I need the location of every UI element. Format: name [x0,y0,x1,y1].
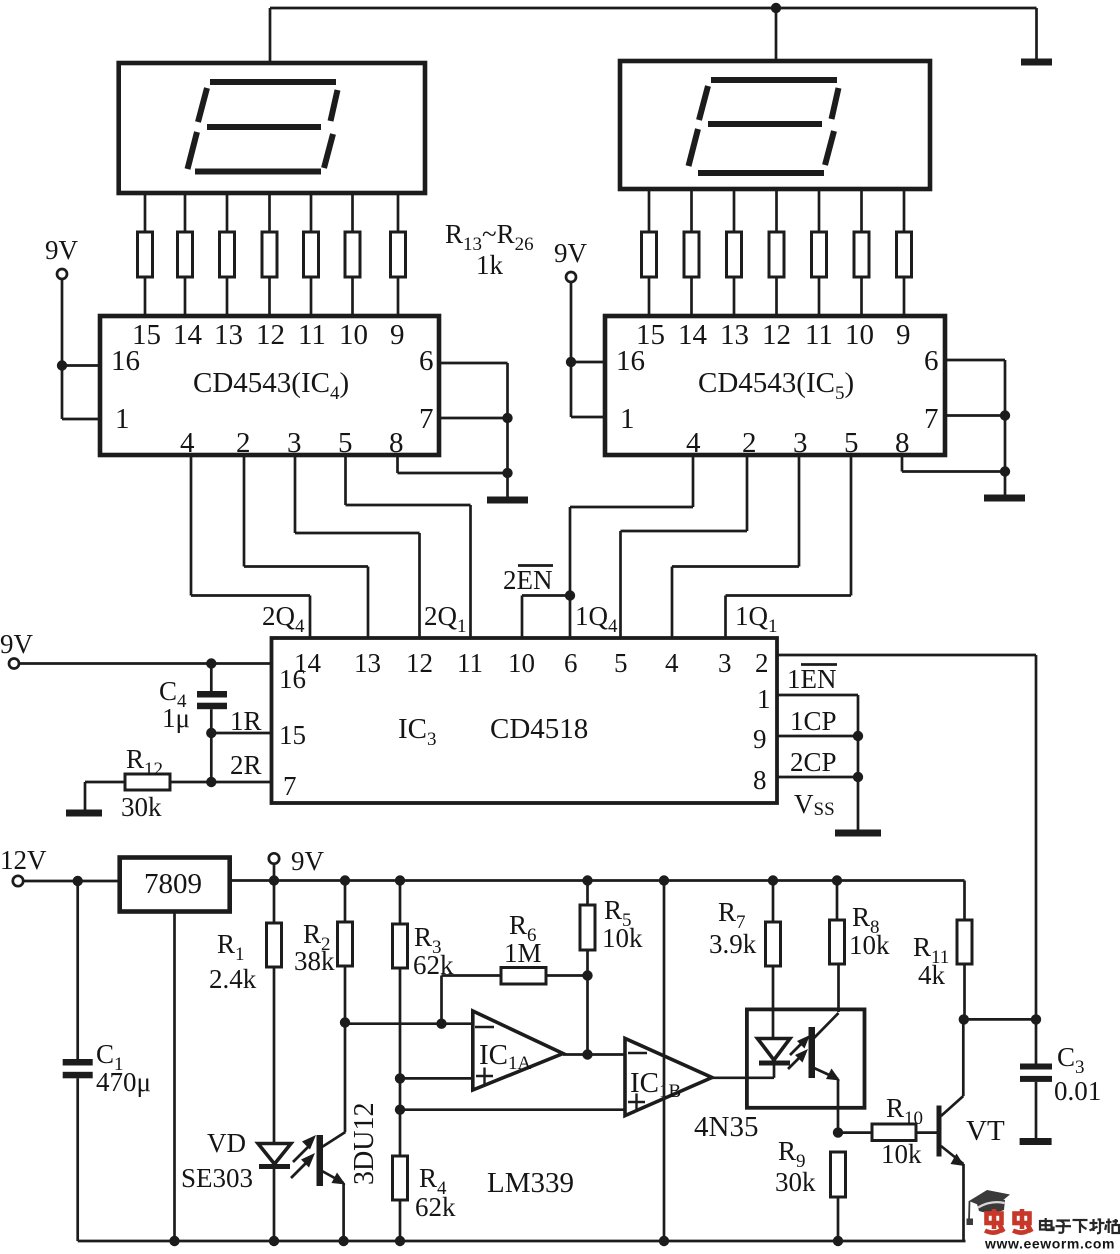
wire: IC4 pin 6 [439,363,508,497]
junction 2EN net [565,590,575,600]
svg-text:1: 1 [620,403,635,435]
capacitor C4 [197,664,227,734]
IC5 side pin numbers [616,345,939,435]
junction R8 top [832,875,842,885]
svg-text:10k: 10k [849,930,890,960]
junction R3/R4 on + input [395,1073,405,1083]
svg-text:2R: 2R [230,750,262,780]
IC5 CD4543 box [605,316,945,455]
svg-text:7809: 7809 [144,868,202,900]
junction IC4 pin7/pin6 [502,413,512,423]
wires: DS2 pins to resistor network [649,189,904,232]
svg-text:0.01: 0.01 [1054,1076,1101,1106]
svg-text:1CP: 1CP [790,706,837,736]
svg-text:30k: 30k [775,1167,816,1197]
LED inside 4N35 [758,1039,791,1066]
wire: IC1B non-inverting input [399,1108,625,1111]
phototransistor 3DU12 [317,1023,346,1242]
junction R9/R10/emitter [833,1127,843,1137]
wire: 7809 ground pin [173,912,176,1242]
IC3 CD4518 box [272,638,778,803]
net label 2EN (overlined) [503,565,553,595]
junction at IC4 pin16 wire [57,360,67,370]
svg-text:9: 9 [390,319,405,351]
label R7 3.9k [709,897,757,959]
svg-text:9V: 9V [554,238,588,268]
wire: CD4518 pin1 [777,695,858,830]
transistor VT [937,1019,965,1241]
junction VT collector/R11 [959,1014,969,1024]
7-segment display DS2 box [620,61,930,189]
IC4 CD4543 box [100,316,439,455]
wire: to CD4518 pin15 (1R) [211,732,271,735]
IC5 bottom pin numbers [686,427,910,459]
regulator 7809 [120,858,230,912]
svg-text:7: 7 [419,403,434,435]
wire: IC1A non-inverting input [399,1077,473,1080]
svg-text:1EN: 1EN [787,664,837,694]
wire: IC4 pin5 to CD4518 pin11 [346,455,471,638]
IC3 label [398,713,588,750]
junction R2/3DU12 on - input [340,1017,350,1027]
junction R6/R5 [582,970,592,980]
svg-text:1Q1: 1Q1 [735,601,778,637]
wire: IC5 pin4 to CD4518 pin6 [570,455,693,638]
wire: CD4518 pin9 [777,735,858,738]
resistor R3 [393,881,408,1157]
svg-text:1Q4: 1Q4 [575,601,618,637]
junction VD on rail [269,1236,279,1246]
label R1 2.4k [209,929,257,994]
ground (CD4518, bar) [835,830,881,837]
resistor R1 [267,881,282,1144]
svg-text:9: 9 [896,319,911,351]
IC4 top pin numbers [132,319,405,351]
svg-text:1: 1 [757,684,771,714]
wire: collector node to right bus [964,1018,1036,1021]
junction 3DU12 emitter on rail [338,1236,348,1246]
svg-text:14: 14 [678,319,708,351]
op-amp IC1B (LM339 comparator) [625,1038,712,1115]
label R10 10k [881,1093,923,1169]
svg-text:2Q4: 2Q4 [262,601,305,637]
svg-text:12V: 12V [0,845,47,875]
svg-text:2CP: 2CP [790,747,837,777]
wire: IC5 pin3 to CD4518 pin4 [672,455,799,638]
7-segment digit of DS1 [188,82,338,172]
svg-text:6: 6 [924,345,939,377]
svg-text:9V: 9V [45,235,79,265]
junction R9 on rail [833,1236,843,1246]
wire: LM339 power (through IC1B) [663,881,666,1242]
wire: IC5 pin2 to CD4518 pin5 [621,455,748,638]
svg-text:2EN: 2EN [503,565,553,595]
junction R4 on rail [395,1236,405,1246]
junction C4 top [206,658,216,668]
resistor R9 [831,1152,846,1241]
svg-text:IC3: IC3 [398,713,437,750]
junction at IC5 pin16 wire [566,357,576,367]
svg-text:9V: 9V [291,846,325,876]
junction R3 top [395,875,405,885]
svg-text:6: 6 [564,648,578,678]
svg-text:CD4543(IC5): CD4543(IC5) [698,367,854,404]
watermark graduation cap icon [967,1190,1011,1225]
node 9V (CD4518 supply) [0,629,34,669]
resistor R12 [85,774,211,790]
wire: IC4 pin 8 to ground [398,455,508,473]
wire: IC4 pin2 to CD4518 pin13 [244,455,368,638]
wire: C4/R12 to CD4518 pin7 (2R) [211,733,271,782]
resistor R7 [766,881,781,1039]
ground (C3, bar) [1020,1138,1052,1145]
svg-text:2: 2 [742,427,757,459]
svg-text:4: 4 [180,427,195,459]
svg-text:38k: 38k [294,946,335,976]
svg-text:13: 13 [214,319,243,351]
svg-text:4: 4 [686,427,701,459]
svg-text:VT: VT [966,1115,1005,1147]
junction R5 bottom on IC1A output [582,1049,592,1059]
wire: IC1B output to 4N35 LED [712,1065,774,1078]
label R4 62k [415,1163,456,1222]
capacitor C3 [1020,1019,1052,1138]
resistor network R13~R26 (right half) [642,232,912,277]
op-amp IC1A (LM339 comparator) [473,1011,563,1090]
svg-text:15: 15 [279,720,306,750]
svg-text:16: 16 [279,664,306,694]
junction R7 top [768,875,778,885]
wire: IC4 pin3 to CD4518 pin12 [295,455,420,638]
label R6 1M [504,910,542,968]
svg-text:16: 16 [111,345,140,377]
ground (IC5, bar) [984,495,1025,502]
7-segment display DS1 box [119,63,425,193]
svg-text:1: 1 [115,403,130,435]
svg-text:62k: 62k [415,1192,456,1222]
label R5 10k [602,895,643,953]
label C1 470u [96,1039,151,1097]
phototransistor inside 4N35 [809,1013,841,1133]
svg-text:1R: 1R [230,706,262,736]
resistor R6 [442,968,588,1024]
svg-text:30k: 30k [121,792,162,822]
svg-text:10: 10 [339,319,368,351]
wire: IC5 pin 7 [945,414,1005,417]
wire: CD4518 pin8 [777,776,858,779]
svg-text:1M: 1M [504,938,542,968]
svg-text:2: 2 [236,427,251,459]
CD4518 top pin numbers [294,648,732,678]
svg-text:10k: 10k [602,923,643,953]
svg-text:11: 11 [298,319,326,351]
node 9V (7809 output) [269,846,325,881]
wire: 12V to 7809 input [24,880,120,883]
svg-text:10k: 10k [881,1139,922,1169]
IC5 top pin numbers [636,319,911,351]
junction on top rail above DS2 [771,3,781,13]
wires: DS1 pins to resistor network [145,193,398,232]
svg-text:4: 4 [665,648,679,678]
CD4518 left pin numbers [279,664,306,801]
svg-text:7: 7 [283,771,297,801]
IC4 bottom pin numbers [180,427,404,459]
svg-text:13: 13 [354,648,381,678]
svg-text:9V: 9V [0,629,34,659]
wire: 9V to IC4 pins 16 and 1 [62,279,100,419]
svg-text:12: 12 [762,319,791,351]
ground (top right, bar) [1021,59,1052,66]
svg-text:CD4543(IC4): CD4543(IC4) [193,367,349,404]
svg-text:5: 5 [338,427,353,459]
label R12 30k [121,744,163,822]
watermark text chongchong (red) [985,1209,1032,1233]
diode VD SE303 (photodiode) [258,1144,291,1242]
svg-text:14: 14 [173,319,203,351]
resistor R5 [580,881,595,1055]
svg-text:4k: 4k [918,960,946,990]
junction R5 top [582,875,592,885]
light arrows VD to 3DU12 [291,1135,316,1178]
svg-text:16: 16 [616,345,645,377]
svg-text:2: 2 [755,648,769,678]
wire: IC5 pin 8 to ground [902,455,1005,472]
svg-text:R1: R1 [217,929,245,965]
svg-text:VD: VD [207,1128,246,1158]
wire: top common rail [270,8,1037,63]
svg-text:3DU12: 3DU12 [349,1103,380,1185]
junction pin8 [853,772,863,782]
label R3 62k [413,922,454,980]
value label R13~R26 1k [445,219,534,280]
wires: resistors to IC5 top pins [649,277,904,316]
7-segment digit of DS2 [689,80,839,173]
junction R2 top [340,875,350,885]
svg-text:SE303: SE303 [181,1163,253,1193]
svg-text:8: 8 [753,765,767,795]
junction pin9 [853,731,863,741]
optocoupler 4N35 box [747,1009,865,1107]
label R8 10k [849,902,890,960]
wire: CD4518 pin2 to right vertical bus [777,655,1036,1019]
resistor R10 [838,1124,937,1141]
svg-text:5: 5 [614,648,628,678]
node 12V [0,845,47,886]
junction R6 leg on - input [436,1019,446,1029]
junction C1/12V [73,876,83,886]
junction IC5 pin8 on ground line [1000,466,1010,476]
svg-text:5: 5 [844,427,859,459]
svg-text:8: 8 [389,427,404,459]
CD4518 right pin numbers [753,648,771,795]
wire: IC4 pin4 to CD4518 pin14 [191,455,310,638]
resistor R8 [830,881,845,1013]
svg-text:LM339: LM339 [487,1167,574,1199]
ground (IC4, bar) [487,497,528,504]
junction 7809 gnd on rail [169,1236,179,1246]
junction right bus/C3 [1031,1014,1041,1024]
wire: bottom ground rail [78,1240,966,1243]
svg-text:6: 6 [419,345,434,377]
node 9V (left, IC4 supply) [45,235,79,279]
svg-text:12: 12 [406,648,433,678]
resistor R11 [957,920,972,1019]
label R9 30k [775,1136,816,1197]
wire: 9V rail [230,881,965,921]
svg-text:1μ: 1μ [162,703,190,733]
svg-text:3: 3 [793,427,808,459]
junction R1 top [269,875,279,885]
svg-text:3.9k: 3.9k [709,929,757,959]
svg-text:10: 10 [508,648,535,678]
svg-text:2.4k: 2.4k [209,964,257,994]
svg-text:1k: 1k [476,250,504,280]
svg-text:R7: R7 [718,897,746,933]
svg-text:11: 11 [805,319,833,351]
junction LM339 V- on rail [659,1236,669,1246]
svg-text:7: 7 [924,403,939,435]
svg-text:470μ: 470μ [96,1067,151,1097]
wire: IC4 pin 7 [439,417,508,420]
label R11 4k [913,932,949,990]
svg-text:3: 3 [718,648,732,678]
resistor network R13~R26 (left half) [138,232,406,277]
light arrows inside 4N35 [788,1035,810,1069]
label R2 38k [294,919,335,976]
label C4 1u [159,676,190,733]
label VD SE303 [181,1128,253,1193]
svg-text:www.eeworm.com: www.eeworm.com [984,1236,1115,1250]
svg-text:9: 9 [753,724,767,754]
wire: 9V to IC5 pins 16 and 1 [571,282,605,417]
junction R3/R4 on IC1B + input [395,1105,405,1115]
svg-text:11: 11 [457,648,483,678]
wire: CD4518 pin10 (2EN) jog [522,596,570,639]
svg-text:2Q1: 2Q1 [424,601,467,637]
junction IC5 pin7/pin6 [1000,410,1010,420]
svg-text:CD4518: CD4518 [490,713,588,745]
wire: IC5 pin5 to CD4518 pin3 [726,455,852,638]
svg-text:13: 13 [720,319,749,351]
wire: IC5 pin 6 [945,360,1005,495]
resistor R2 [338,881,353,1023]
junction IC4 pin8 on ground line [502,468,512,478]
svg-text:8: 8 [895,427,910,459]
ground (R12, bar) [66,782,102,817]
wires: resistors to IC4 top pins [145,277,398,316]
label C3 0.01 [1054,1042,1101,1106]
junction at pin15 wire [206,728,216,738]
svg-text:10: 10 [845,319,874,351]
svg-text:3: 3 [287,427,302,459]
node 9V (IC5 supply) [554,238,588,282]
svg-text:C3: C3 [1057,1042,1085,1078]
junction LM339 V+ on 9V rail [659,875,669,885]
svg-text:12: 12 [256,319,285,351]
wire: IC1A output to IC1B inverting input [563,1053,625,1056]
IC4 side pin numbers [111,345,434,435]
watermark text dianzi xiazai zhan (black strokes) [1040,1218,1119,1233]
junction at pin7 wire [206,777,216,787]
svg-text:VSS: VSS [794,789,835,820]
svg-text:4N35: 4N35 [694,1111,758,1143]
capacitor C1 [63,881,93,1241]
resistor R4 [393,1156,408,1241]
wire: 9V to CD4518 pin16 [19,662,272,665]
pin label 1EN (overlined) [787,664,837,694]
wire: IC1A inverting input [345,1022,473,1025]
